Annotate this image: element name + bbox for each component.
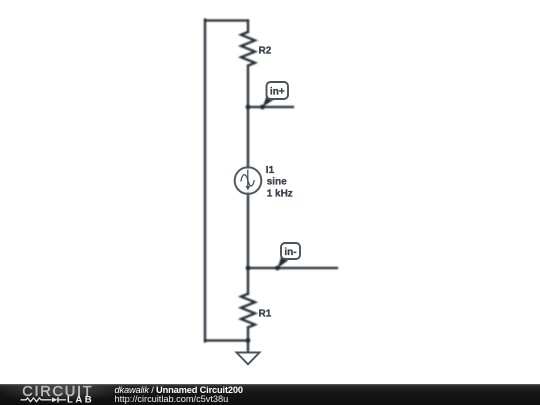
node in+ junction dot: [246, 105, 251, 110]
ground: [237, 353, 260, 365]
node in+ attach dot: [260, 105, 265, 110]
node in+ flag box outline: [267, 82, 289, 99]
wire bottom horizontal: [205, 339, 248, 341]
svg-text:sine: sine: [267, 177, 287, 188]
node in- junction dot: [246, 266, 251, 271]
svg-text:LAB: LAB: [67, 395, 94, 405]
node in- attach dot: [275, 266, 280, 271]
wire left vertical: [204, 20, 206, 342]
CircuitLab logo: [0, 384, 110, 405]
resistor R2: [241, 32, 255, 66]
svg-text:I1: I1: [266, 165, 275, 176]
resistor R1 value label: [259, 309, 272, 320]
svg-text:1 kHz: 1 kHz: [267, 188, 293, 199]
node in- flag box outline: [281, 243, 300, 259]
resistor R2 value label: [259, 46, 272, 57]
resistor R1: [241, 294, 255, 328]
wire node in- stub: [248, 267, 337, 269]
wire I1 to R1: [247, 194, 249, 294]
svg-text:in+: in+: [270, 86, 285, 97]
node in- flag box: [278, 257, 289, 268]
svg-text:in-: in-: [284, 247, 296, 258]
svg-text:R1: R1: [259, 309, 272, 320]
wire ground lead: [247, 341, 249, 353]
current source I1 labels: [266, 165, 293, 199]
current source I1: [235, 167, 262, 194]
wire above R2: [247, 21, 249, 33]
wire R2 to I1: [247, 66, 249, 168]
node in- label: [284, 247, 296, 258]
current source I1 circle mask: [236, 168, 260, 192]
node bottom junction dot: [246, 338, 251, 343]
footer bar: [0, 384, 540, 405]
node in+ label: [270, 86, 285, 97]
wire top horizontal: [205, 19, 248, 21]
wire R1 to bottom: [247, 327, 249, 340]
wire node in+ stub: [248, 106, 293, 108]
credit text: [115, 386, 243, 404]
node in+ flag box: [263, 96, 275, 107]
svg-text:R2: R2: [259, 46, 272, 57]
